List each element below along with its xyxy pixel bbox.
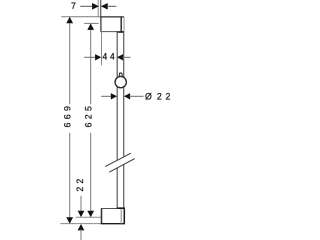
break symbol slash upper — [105, 153, 131, 166]
extension line top at bracket top — [61, 16, 100, 18]
dimension diameter 22 line left — [101, 95, 111, 97]
bracket bottom dark top edge — [117, 207, 125, 209]
dimension 7 line left — [80, 5, 92, 7]
wire bar right edge lower — [123, 165, 125, 209]
dimension 7 line right — [108, 5, 117, 7]
bracket bottom body — [101, 208, 124, 224]
bracket bottom inner right line — [120, 208, 122, 223]
bracket top top edge — [100, 16, 124, 18]
break symbol slash lower — [109, 159, 135, 173]
wire bar left edge lower — [116, 168, 118, 208]
dimension 44 line left — [84, 56, 95, 58]
wire bar right edge upper — [123, 32, 125, 157]
extension line top hole — [84, 22, 99, 24]
slider circle — [115, 76, 126, 87]
dimension diameter 22 line right — [130, 95, 144, 97]
extension line bottom end — [60, 223, 101, 225]
bracket top inner right line — [120, 17, 122, 32]
dimension diameter 22 arrow right-pointing — [111, 93, 117, 99]
dimension 669 arrow down — [66, 217, 73, 223]
dimension 22 arrow up lower — [78, 224, 85, 230]
wire wall line left — [97, 0, 99, 17]
dimension 22 arrow down upper — [78, 211, 85, 217]
bracket top left edge — [100, 17, 102, 32]
dimension 625 line — [90, 24, 92, 217]
bracket top dark under edge — [117, 31, 125, 33]
bracket top bottom edge — [101, 31, 117, 33]
dimension 44 arrow right-pointing — [95, 54, 101, 60]
dimension 22 stem bottom — [80, 229, 82, 240]
wire bar left edge upper — [116, 32, 118, 160]
svg-text:7: 7 — [71, 1, 76, 11]
slider nub — [119, 73, 122, 78]
bracket top outer right line — [123, 17, 125, 32]
bracket bottom left edge — [101, 208, 103, 224]
bracket top body — [101, 17, 124, 32]
dimension diameter 22 arrow left-pointing — [124, 93, 130, 99]
dimension 669 arrow up — [66, 17, 73, 23]
dimension 7 arrow right-pointing — [92, 3, 99, 10]
bracket bottom top edge — [101, 208, 117, 210]
svg-text:669: 669 — [63, 103, 73, 128]
svg-text:44: 44 — [102, 52, 117, 62]
svg-text:Ø: Ø — [145, 91, 152, 101]
dimension 625 arrow down — [87, 211, 94, 217]
dimension 22 leader line — [80, 196, 82, 214]
bracket bottom outer right edge — [123, 208, 125, 224]
svg-text:22: 22 — [157, 91, 174, 101]
dimension 44 arrow left-pointing — [117, 54, 123, 60]
wire wall line right — [100, 0, 102, 17]
extension line bottom hole — [76, 216, 101, 218]
dimension 625 arrow up — [87, 24, 94, 30]
dimension 44 line right — [123, 56, 131, 58]
dimension 44 extension line — [101, 32, 103, 66]
dimension 7 arrow left-pointing — [101, 3, 108, 10]
bracket bottom bottom edge — [101, 223, 125, 225]
svg-text:22: 22 — [75, 176, 85, 192]
svg-text:625: 625 — [84, 103, 94, 128]
dimension 669 line — [69, 17, 71, 223]
